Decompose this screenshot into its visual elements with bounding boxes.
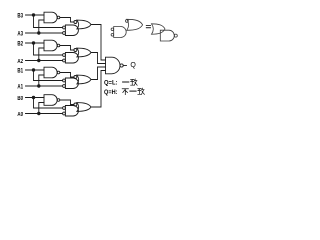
legend Q=L: match: [104, 80, 118, 87]
note OR symbol with negated top input: [126, 20, 129, 23]
note NAND symbol: [160, 30, 174, 41]
wire A2 to AND bottom input: [26, 60, 63, 62]
legend glyph 不 (line2): [122, 89, 128, 95]
wire B2 drop to AND top input: [34, 43, 63, 55]
OR gate U2c with negated top input, output XNOR bit 1: [74, 76, 77, 79]
wire A3 to AND bottom input: [26, 32, 63, 34]
wire A3 riser to NAND bottom input: [39, 20, 44, 33]
input label B2: [17, 42, 23, 48]
svg-text:B3: B3: [17, 14, 23, 20]
svg-text:B0: B0: [17, 96, 23, 102]
wire A2 riser to NAND bottom input: [39, 48, 44, 61]
wire U5 output to Q: [124, 65, 127, 67]
wire NAND U3a output to OR top input: [60, 46, 74, 51]
node B2 junction: [32, 41, 35, 44]
input label A0: [17, 112, 23, 118]
wire NAND U4a output to OR top input: [60, 18, 74, 23]
node A3 junction: [37, 31, 40, 34]
wire B0 drop to AND top input: [34, 98, 63, 109]
NAND gate U4a inputs B3,A3: [44, 12, 57, 23]
wire XNOR bit 1 to final NAND input: [91, 67, 106, 80]
wire NAND U1a output to OR top input: [60, 100, 74, 105]
wire B3 to NAND top input: [26, 14, 45, 16]
wire XNOR bit 0 to final NAND input: [91, 71, 106, 108]
node A2 junction: [37, 59, 40, 62]
note OR symbol: [152, 24, 166, 34]
wire B1 drop to AND top input: [34, 70, 63, 81]
svg-text:B1: B1: [17, 69, 23, 75]
node B1 junction: [32, 68, 35, 71]
svg-text:Q=H:: Q=H:: [104, 89, 118, 96]
svg-text:A2: A2: [17, 59, 23, 65]
NAND gate U1a inputs B0,A0: [44, 95, 57, 106]
legend Q=H: mismatch: [104, 89, 118, 96]
svg-text:A1: A1: [17, 85, 23, 91]
wire NAND U2a output to OR top input: [60, 73, 74, 78]
node A1 junction: [37, 84, 40, 87]
OR gate U1c with negated top input, output XNOR bit 0: [74, 103, 77, 106]
NAND gate U2a inputs B1,A1: [44, 67, 57, 78]
note negated-input AND symbol: [111, 28, 114, 31]
wire XNOR bit 2 to final NAND input: [91, 53, 106, 64]
node B0 junction: [32, 96, 35, 99]
svg-text:A0: A0: [17, 112, 23, 118]
svg-text:Q=L:: Q=L:: [104, 80, 118, 87]
input label B0: [17, 96, 23, 102]
input label B1: [17, 69, 23, 75]
node B3 junction: [32, 13, 35, 16]
legend glyph 一 (line2): [130, 90, 136, 92]
OR gate U3c with negated top input, output XNOR bit 2: [74, 49, 77, 52]
wire B2 to NAND top input: [26, 42, 45, 44]
wire B3 drop to AND top input: [34, 15, 63, 28]
wire B1 to NAND top input: [26, 69, 45, 71]
input label B3: [17, 14, 23, 20]
4-input NAND gate U5: [106, 57, 120, 74]
input label A3: [17, 32, 23, 38]
wire A0 to AND bottom input: [26, 113, 63, 115]
legend glyph 一 (line1): [123, 81, 129, 83]
wire XNOR bit 3 to final NAND input: [91, 25, 106, 61]
legend glyph 致 (line1): [131, 79, 138, 85]
node A0 junction: [37, 112, 40, 115]
wire A0 riser to NAND bottom input: [39, 103, 44, 114]
negated-input AND gate U1b inputs B0,A0: [63, 107, 66, 110]
negated-input AND gate U3b inputs B2,A2: [63, 54, 66, 57]
wire B0 to NAND top input: [26, 97, 45, 99]
NAND gate U3a inputs B2,A2: [44, 40, 57, 51]
legend glyph 致 (line2): [138, 88, 145, 94]
wire A1 to AND bottom input: [26, 85, 63, 87]
output label Q: [130, 62, 136, 69]
OR gate U4c with negated top input, output XNOR bit 3: [74, 21, 77, 24]
input label A1: [17, 85, 23, 91]
negated-input AND gate U2b inputs B1,A1: [63, 79, 66, 82]
negated-input AND gate U4b inputs B3,A3: [63, 26, 66, 29]
svg-text:B2: B2: [17, 42, 23, 48]
wire A1 riser to NAND bottom input: [39, 75, 44, 86]
svg-text:Q: Q: [130, 62, 136, 69]
note equals sign: [146, 26, 150, 28]
svg-text:A3: A3: [17, 32, 23, 38]
input label A2: [17, 59, 23, 65]
